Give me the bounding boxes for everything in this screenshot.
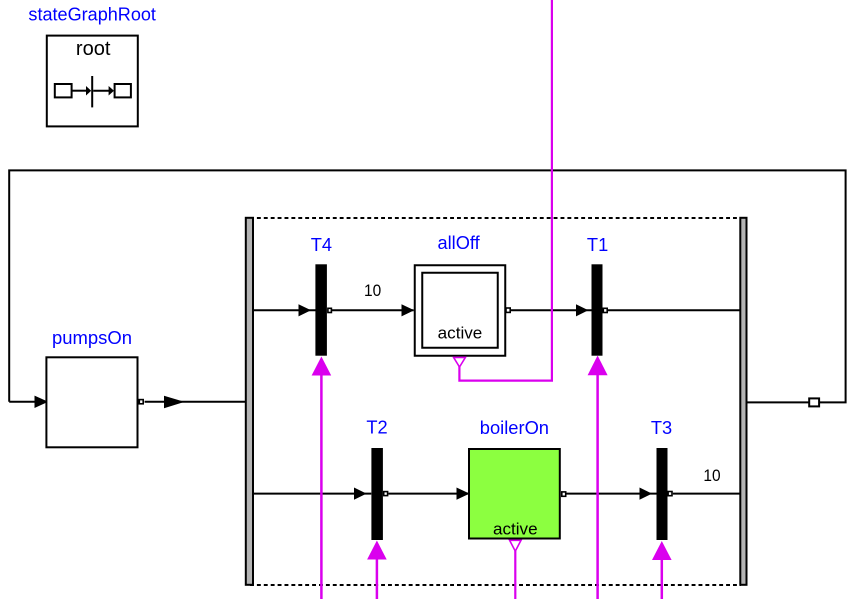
T1 outPort (603, 308, 607, 312)
root icon wire 2 (93, 90, 110, 92)
arrow into T1 (576, 304, 588, 316)
allOff outPort (506, 308, 510, 312)
T4 outPort (328, 308, 332, 312)
root icon transition bar (91, 76, 93, 107)
arrow into T4 (299, 304, 312, 316)
wire T3 to exit bar (673, 493, 741, 495)
wire bar to T2 (254, 493, 371, 495)
root icon wire 1 (72, 90, 87, 92)
boilerOn magenta stem wire (514, 551, 516, 599)
composite step dashed top border (250, 217, 741, 219)
root icon arrow 2 (109, 86, 114, 96)
T3 magenta stem wire (661, 559, 664, 599)
composite step left entry bar (246, 218, 253, 585)
T2 outPort (384, 492, 388, 496)
pumpsOn outPort (139, 400, 143, 404)
feedback loop wire (9, 170, 845, 402)
arrow into T3 (640, 488, 653, 500)
wire T1 to exit bar (608, 309, 741, 311)
transition T2 (371, 448, 383, 540)
composite step right exit bar (740, 218, 746, 585)
arrow into boilerOn (457, 488, 470, 500)
svg-text:stateGraphRoot: stateGraphRoot (28, 4, 156, 24)
svg-text:T3: T3 (651, 418, 672, 438)
svg-text:pumpsOn: pumpsOn (52, 328, 132, 348)
wire allOff to T1 (511, 309, 592, 311)
wire into pumpsOn (9, 401, 45, 403)
svg-text:T4: T4 (311, 235, 332, 255)
wire pumpsOn to composite (145, 401, 246, 403)
initial step allOff outer (415, 265, 506, 356)
T1 magenta stem wire (596, 374, 599, 599)
svg-text:10: 10 (364, 281, 381, 300)
transition T3 (657, 448, 668, 540)
boilerOn outPort (562, 492, 566, 496)
T3 magenta arrow (652, 541, 672, 560)
svg-text:allOff: allOff (438, 233, 481, 253)
wire T2 to boilerOn (388, 493, 468, 495)
allOff suspend port triangle (454, 357, 466, 367)
arrow on wire (164, 396, 185, 409)
root icon left square (55, 84, 72, 97)
transition T4 (315, 264, 327, 355)
step pumpsOn (46, 357, 137, 447)
T2 magenta arrow (367, 541, 387, 560)
T3 outPort (668, 492, 672, 496)
svg-text:root: root (76, 38, 111, 60)
composite step dashed bottom border (250, 584, 741, 586)
svg-text:10: 10 (703, 466, 720, 485)
wire T4 to allOff (332, 309, 414, 311)
T4 magenta stem wire (320, 375, 323, 599)
T4 magenta arrow (312, 357, 332, 376)
T2 magenta stem wire (376, 559, 379, 599)
wire boilerOn to T3 (567, 493, 657, 495)
root icon arrow 1 (86, 86, 91, 96)
root icon right square (115, 84, 131, 97)
svg-text:T1: T1 (587, 235, 608, 255)
arrow into allOff (402, 304, 415, 316)
svg-text:boilerOn: boilerOn (480, 418, 549, 438)
arrow into T2 (354, 488, 367, 500)
arrow into pumpsOn (35, 396, 49, 408)
transition T1 (592, 264, 603, 355)
stateGraphRoot block root (47, 36, 138, 127)
T1 magenta arrow (588, 356, 608, 376)
svg-text:active: active (493, 520, 538, 539)
magenta suspend wire from top (459, 0, 552, 381)
svg-text:T2: T2 (366, 418, 387, 438)
svg-text:active: active (438, 324, 483, 343)
composite outPort connector rect (809, 398, 819, 406)
boilerOn active port triangle (510, 540, 521, 551)
wire bar to T4 (254, 309, 316, 311)
initial step allOff inner (422, 273, 498, 348)
step boilerOn (active, green) (469, 449, 560, 539)
